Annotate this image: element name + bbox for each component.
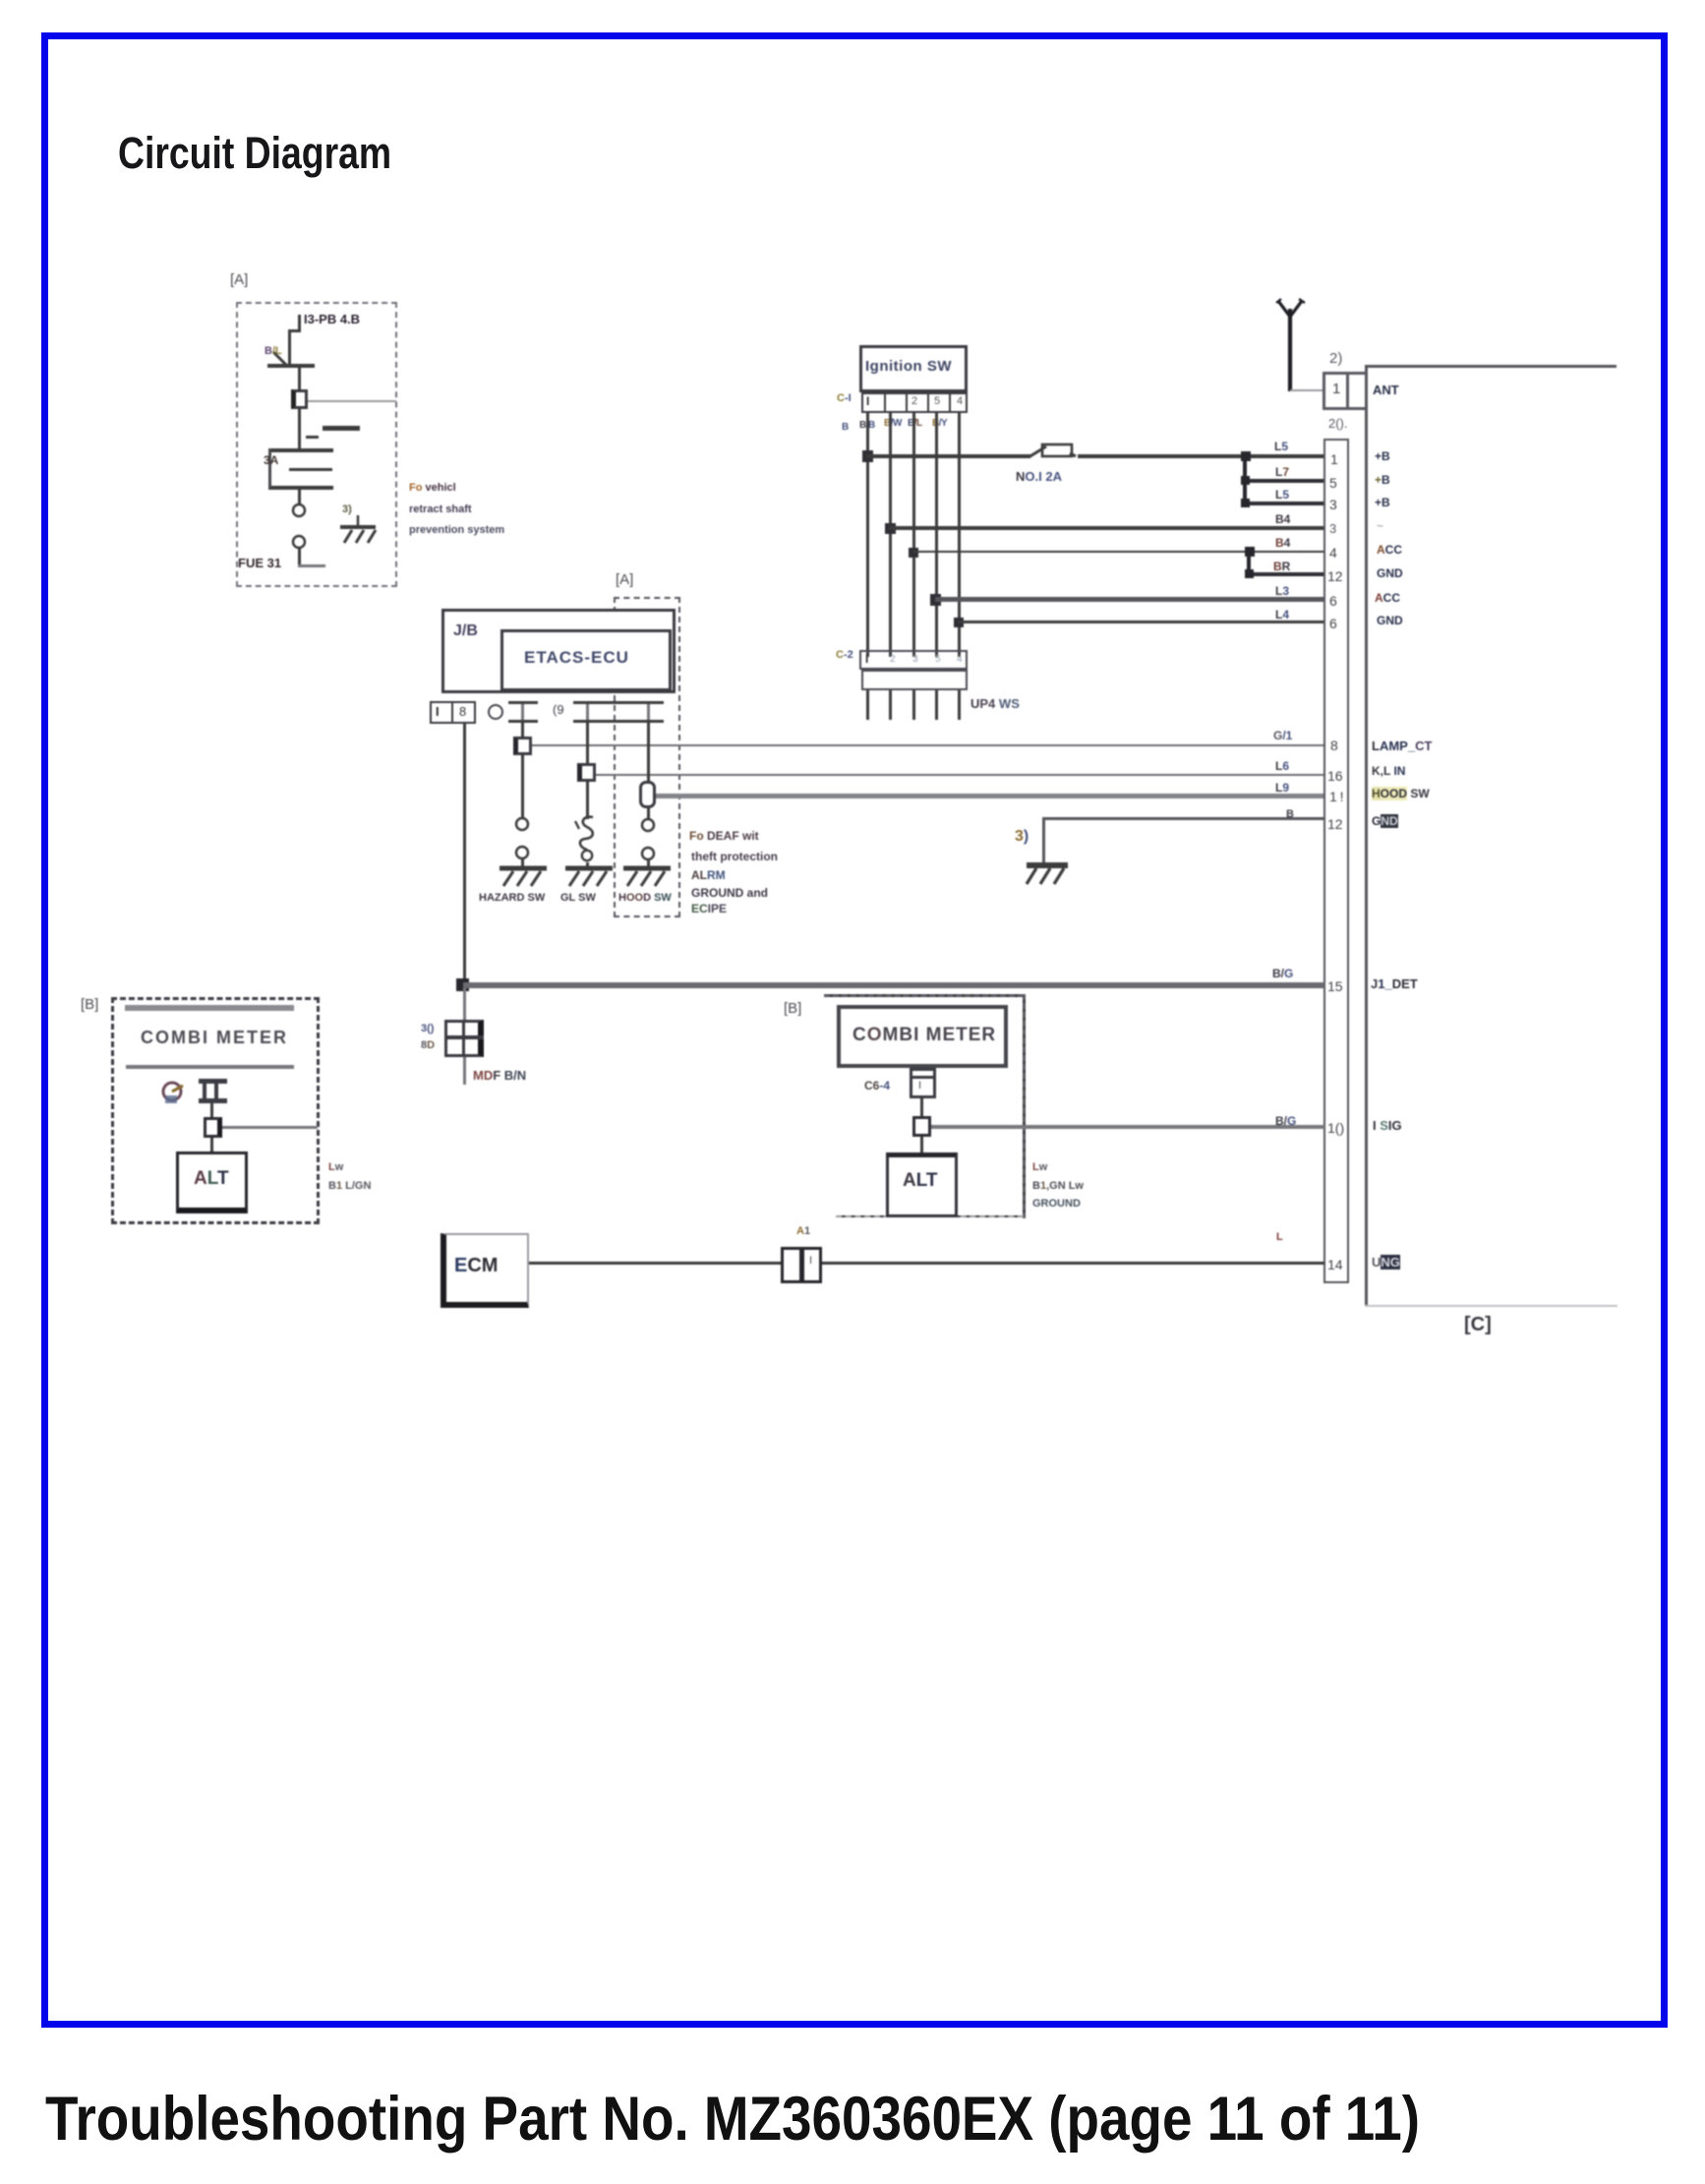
wire SW2 to ground [521, 858, 524, 869]
ALT label [194, 1168, 229, 1190]
junction block J/B box [441, 609, 676, 693]
wire ignition to radio pin 6 (thick) [935, 597, 1324, 602]
switch SW1 contact circles [290, 502, 310, 554]
wire fuse to connector square [298, 368, 301, 390]
dashed enclosure box A1 [236, 302, 397, 587]
ignition wire 4 vertical [935, 413, 938, 657]
pin 15 number [1327, 978, 1343, 994]
wire X3 down [586, 782, 589, 819]
node [A] label above ETACS [616, 571, 633, 588]
pin 6 number [1329, 593, 1337, 609]
node [B] label middle [784, 1000, 801, 1017]
wire colour labels under ignition connector [842, 422, 849, 433]
pin 8 number (second 6) [1329, 616, 1337, 631]
wire fuse to radio pin 1 [1078, 454, 1324, 458]
label HOOD SW [618, 892, 672, 904]
signal HOOD SW [1372, 787, 1430, 800]
connector X9 ref label [796, 1225, 810, 1237]
wire J/B to radio pin 15 (thick bus) [463, 982, 1324, 988]
connector ref C6-4 [864, 1079, 890, 1092]
wire SW3 to ground [586, 862, 589, 869]
signal name labels right of connector [1375, 449, 1390, 463]
signal I SIG [1373, 1118, 1402, 1133]
wire switch to corner [298, 547, 301, 566]
signal J1_DET [1371, 976, 1418, 991]
pin 10 number [1327, 1120, 1344, 1136]
ALT label [903, 1170, 938, 1192]
wire ignition B to fuse (pin 1 feed) [866, 454, 1029, 458]
radio unit left edge [1365, 365, 1368, 1307]
ground G3 symbol [563, 862, 615, 892]
ignition wire 5 vertical [958, 413, 961, 657]
ground G1 symbol [336, 515, 382, 549]
alternator ALT2 box [886, 1152, 958, 1217]
wire SW4 to ground [647, 859, 650, 869]
junction dot wire3 [909, 548, 918, 558]
wire antenna to ANT connector [1290, 389, 1325, 391]
wire drop ILL branch [586, 723, 589, 765]
signal GND lower [1372, 814, 1398, 828]
inline connector X3 [577, 763, 596, 782]
ignition wire 1 vertical [866, 413, 869, 657]
wire X6 to dashed edge [222, 1126, 318, 1129]
pin 11 number [1329, 789, 1343, 804]
antenna ANT1 symbol [1272, 295, 1312, 397]
signal label ANT [1373, 383, 1399, 397]
pin 3 number [1329, 497, 1337, 512]
connector ref label C-2 [836, 649, 853, 661]
node [A] label top-left [230, 271, 248, 288]
branch bracket pins 4/12 [1245, 547, 1255, 557]
wire X4 down [647, 808, 650, 820]
branch bracket +B pins 1/5/3 [1241, 451, 1251, 461]
label MDF B/N [473, 1068, 526, 1083]
switch SW2 contacts [513, 816, 533, 865]
inline connector X9 (double) [781, 1247, 802, 1283]
combi meter M2 box [837, 1005, 1008, 1068]
COMBI METER label [852, 1025, 996, 1046]
ground G5 symbol [1021, 857, 1072, 889]
combi meter M1 top rail [125, 1005, 294, 1011]
ignition wire 3 vertical [912, 413, 915, 657]
ETACS-ECU U1 box [500, 629, 672, 691]
wire GND pin12 horizontal [1044, 817, 1324, 820]
wire colour labels at connector left [1274, 440, 1288, 453]
pin 4 number [1329, 545, 1337, 561]
wire J2 down to MDF connector [463, 988, 466, 1022]
ground G1 label [342, 503, 352, 515]
J/B label [453, 622, 478, 640]
wire from X1 to dashed edge [308, 400, 396, 402]
note text right of box A1 [409, 482, 456, 494]
ECM U2 box [441, 1233, 529, 1308]
pin 6 bars [508, 701, 538, 704]
gauge icon [155, 1078, 195, 1107]
connector stub wires below [866, 690, 869, 720]
wire ignition to radio pin 8 row [958, 620, 1324, 623]
fuse F2 label NO.1 2A [1016, 469, 1062, 484]
wire drop hood branch [647, 723, 650, 784]
pin 16 number [1327, 768, 1343, 784]
pin 12 lower number [1327, 816, 1343, 832]
radio unit top edge [1365, 365, 1617, 368]
switch SW4 contacts [639, 817, 659, 866]
sensor element (plates) [199, 1079, 227, 1084]
wire elbow [288, 329, 301, 332]
J/B pin box 1|8 [430, 701, 476, 724]
ignition lower connector body [861, 670, 968, 690]
ignition switch SW5 box [859, 345, 968, 392]
ground G4 symbol [621, 862, 673, 892]
pin 8 lower number [1330, 738, 1338, 753]
title [118, 128, 391, 179]
switch SW3 (sliding contact) [573, 814, 603, 863]
pin 14 number [1327, 1257, 1343, 1272]
signal K,L IN [1372, 764, 1405, 778]
fuse F1 symbol [267, 364, 315, 368]
connector X7 below M2 [910, 1068, 936, 1098]
connector square X1 [291, 389, 308, 409]
wire ECM to connector X9 [529, 1262, 781, 1265]
pin 12 number [1327, 568, 1343, 584]
pin 1 number [1330, 451, 1338, 467]
inline connector X2 [513, 737, 532, 755]
wire X2 down [521, 755, 524, 818]
wire drop hazard branch [521, 723, 524, 738]
pin labels 1 and 8 [436, 704, 440, 719]
radio unit bottom edge [1365, 1305, 1617, 1307]
ANT connector box pin 1 [1323, 372, 1368, 410]
wire down to fuse F1 [288, 329, 291, 367]
signal LAMP_CT [1372, 738, 1432, 753]
inline connector X6 [204, 1117, 222, 1138]
ETACS-ECU label [524, 648, 629, 668]
wire X8 down to ALT [920, 1137, 923, 1152]
wire battery to switch [298, 490, 301, 504]
ground G2 symbol [498, 862, 549, 892]
ignition connector pin row [861, 392, 968, 413]
harness label LP4 WS [970, 696, 1020, 711]
wire X3 to radio pin 16 [596, 774, 1324, 776]
battery value label 3A [264, 453, 278, 467]
wire GND pin12 vertical drop [1042, 817, 1045, 864]
fuse F2 symbol [1019, 443, 1080, 466]
radio 20-pin connector column [1323, 439, 1349, 1283]
value label 13-PB 4.B [304, 312, 360, 326]
wire X8 to radio pin 10 [931, 1125, 1324, 1129]
node J2 junction dot [456, 978, 469, 991]
combi meter M1 dashed box [111, 997, 320, 1224]
note text right of M1 [328, 1161, 343, 1173]
ignition lower connector row [859, 650, 968, 670]
connector ref label 2) above ANT box [1329, 350, 1342, 367]
ignition wire 2 vertical [889, 413, 892, 657]
pin 6 terminal circle [488, 701, 505, 723]
label HAZARD SW [479, 892, 545, 904]
note text right of M2 [1032, 1161, 1047, 1173]
MDF crossed connector X5 [444, 1020, 484, 1057]
wire MDF stub down [463, 1057, 466, 1085]
COMBI METER label [141, 1028, 288, 1048]
junction dot wire4 [930, 594, 941, 606]
dashed enclosure box A2 [614, 597, 680, 917]
wire X6 down to ALT [210, 1138, 213, 1151]
pin (9) bars [573, 701, 664, 704]
wire X2 to radio pin 8 [532, 744, 1324, 746]
battery BT1 symbol [323, 426, 360, 431]
combi meter M2 dashed enclosure [824, 994, 1024, 997]
wire sensor to connector [210, 1103, 213, 1119]
wire ignition to radio pin 3 (ACC feed) [889, 526, 1324, 530]
wire long drop from J/B pin to node J2 [463, 724, 466, 987]
signal ENG [1372, 1255, 1400, 1269]
fuse label B/L [265, 345, 282, 357]
node [B] label left [81, 996, 98, 1013]
ECM label [454, 1255, 498, 1277]
label FUSE 31 [238, 556, 281, 570]
alternator ALT1 box [176, 1151, 248, 1213]
wire from label down [298, 315, 301, 331]
wire X7 down [920, 1098, 923, 1118]
junction dot wire5 [954, 618, 964, 627]
MDF connector ref (vertical) [421, 1023, 434, 1034]
combi meter M1 divider rail [126, 1065, 294, 1069]
pin 5 number [1329, 475, 1337, 491]
connector ref label 20 above pin column [1328, 416, 1348, 431]
unit ref label [C] [1464, 1314, 1492, 1336]
inline connector X4 (oval) [639, 781, 656, 808]
connector ref label C-1 [837, 392, 852, 404]
pin (9) label [553, 702, 564, 717]
label ILL SW [560, 892, 596, 904]
Ignition SW label [865, 358, 952, 375]
wire ignition to radio pin 4 [912, 551, 1324, 553]
junction dot wire1 [862, 450, 873, 462]
note text right of ETACS grounds [689, 829, 759, 843]
junction dot wire2 [885, 523, 896, 534]
inline connector X8 [912, 1116, 931, 1137]
wire X1 down to battery [298, 409, 301, 448]
ground G5 label 3) [1015, 828, 1029, 846]
pin 2 number [1329, 521, 1336, 536]
ignition connector pin numbers [866, 394, 869, 408]
wire X9 to radio pin 14 [822, 1262, 1324, 1265]
wire X4 to radio pin 11 (thick) [656, 794, 1324, 798]
caption [45, 2084, 1420, 2154]
